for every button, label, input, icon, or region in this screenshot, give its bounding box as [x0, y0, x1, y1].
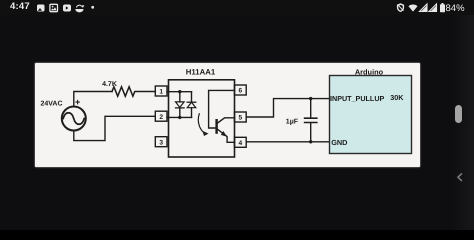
- svg-text:30K: 30K: [390, 93, 404, 102]
- svg-text:3: 3: [159, 139, 163, 146]
- svg-text:6: 6: [238, 88, 242, 95]
- svg-text:4: 4: [238, 140, 242, 147]
- svg-text:Arduino: Arduino: [355, 67, 384, 76]
- svg-text:H11AA1: H11AA1: [186, 68, 216, 77]
- svg-text:2: 2: [159, 114, 163, 121]
- svg-text:GND: GND: [331, 138, 347, 147]
- svg-text:5: 5: [238, 115, 242, 122]
- svg-text:24VAC: 24VAC: [40, 101, 62, 108]
- svg-text:1µF: 1µF: [286, 118, 299, 125]
- svg-text:4.7K: 4.7K: [102, 81, 117, 88]
- svg-text:1: 1: [159, 89, 163, 96]
- svg-text:INPUT_PULLUP: INPUT_PULLUP: [330, 94, 385, 103]
